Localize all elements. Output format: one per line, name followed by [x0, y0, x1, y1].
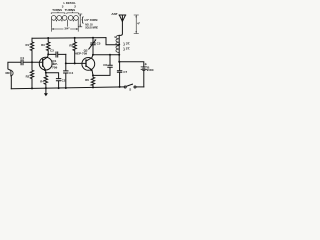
- resistor R2: [26, 74, 30, 78]
- bracket under left TURNS: [51, 12, 65, 14]
- node B+ / C7 top: [118, 61, 120, 63]
- 3T label: [123, 42, 130, 46]
- svg-text:TURNS: TURNS: [65, 8, 76, 12]
- resistor R1: [26, 43, 30, 47]
- capacitor C3: [50, 49, 54, 53]
- detail coil loop 5: [74, 16, 79, 21]
- L DETAIL title: [64, 1, 76, 5]
- detail coil loop 2: [57, 16, 62, 21]
- loop junction dots: [56, 20, 57, 21]
- switch S: [124, 86, 126, 88]
- svg-text:9VDC: 9VDC: [147, 68, 155, 72]
- svg-text:3T.: 3T.: [126, 42, 131, 46]
- Q1 label: [52, 59, 58, 69]
- variable capacitor C5: [97, 41, 101, 45]
- svg-text:2T.: 2T.: [126, 47, 131, 51]
- svg-text:C3: C3: [50, 49, 54, 53]
- brace for coil notes: [82, 15, 84, 24]
- svg-text:C1: C1: [20, 56, 24, 60]
- battery plus sign: [145, 63, 147, 65]
- svg-text:R4: R4: [40, 79, 44, 83]
- detail coil loop 1: [51, 16, 56, 21]
- emitter node Q2: [92, 74, 94, 76]
- svg-text:C2: C2: [62, 78, 66, 82]
- transistor Q1: [39, 57, 52, 70]
- antenna length dimension: [134, 15, 139, 34]
- emitter node Q1: [45, 72, 47, 74]
- Q2 label: [75, 49, 88, 56]
- note NO.18: [85, 22, 93, 26]
- svg-text:ANT: ANT: [111, 12, 117, 16]
- coil tap junction: [118, 44, 120, 46]
- coil L loops: [116, 35, 119, 52]
- rail step down to coil tap: [106, 38, 119, 45]
- svg-text:709: 709: [52, 65, 58, 69]
- svg-text:C7: C7: [123, 70, 127, 74]
- ground rail: [11, 87, 124, 89]
- wire mic bottom to ground rail: [10, 76, 12, 89]
- detail length dimension: [52, 27, 79, 32]
- resistor R3: [41, 43, 45, 47]
- form dimension bar: [78, 14, 82, 27]
- transistor Q2: [82, 58, 95, 71]
- capacitor C6: [103, 63, 107, 67]
- detail coil leads: [52, 19, 79, 26]
- wire emitter to C2: [46, 73, 59, 79]
- svg-text:C5: C5: [97, 41, 101, 45]
- svg-text:L: L: [115, 35, 117, 39]
- L label: [115, 35, 117, 39]
- top rail: [32, 37, 106, 40]
- 2 turns label: [65, 4, 77, 12]
- coil L axis: [118, 35, 120, 61]
- svg-text:3/4": 3/4": [64, 26, 70, 30]
- B+ wire to battery: [119, 62, 144, 67]
- resistor R4: [40, 79, 44, 83]
- svg-text:R3: R3: [41, 43, 45, 47]
- note 1/4in form: [84, 18, 98, 22]
- node collector Q1: [47, 53, 49, 55]
- detail coil loop 4: [68, 16, 73, 21]
- svg-text:MIC: MIC: [6, 71, 11, 75]
- node coil bottom on tank wire: [118, 54, 120, 56]
- svg-text:4": 4": [137, 22, 141, 26]
- svg-text:HEP-709: HEP-709: [75, 51, 88, 55]
- node C4 tap: [65, 62, 67, 64]
- antenna symbol: [119, 15, 126, 21]
- wire mic to C1: [8, 62, 21, 70]
- capacitor C1: [20, 56, 24, 60]
- svg-text:TURNS: TURNS: [52, 8, 62, 12]
- svg-text:C6: C6: [103, 63, 107, 67]
- ANT label: [111, 12, 117, 16]
- svg-text:SOLID WIRE: SOLID WIRE: [85, 25, 98, 29]
- wire C1 to Q1 base: [23, 61, 43, 63]
- svg-text:R1: R1: [26, 43, 30, 47]
- bracket under right TURNS: [67, 12, 78, 14]
- resistor R6: [85, 78, 89, 82]
- 2T label: [123, 47, 130, 51]
- svg-text:S: S: [129, 88, 131, 92]
- note SOLID WIRE: [85, 25, 98, 29]
- wire C3 down to base net: [66, 54, 86, 63]
- node R5 bottom: [74, 62, 76, 64]
- node base Q1: [31, 61, 33, 63]
- svg-text:C4: C4: [69, 71, 73, 75]
- MIC label: [6, 71, 11, 75]
- capacitor C2: [62, 78, 66, 82]
- battery B: [141, 67, 146, 71]
- detail coil loop 3: [62, 16, 67, 21]
- tank wire collector Q2: [93, 54, 119, 56]
- capacitor C7: [123, 70, 127, 74]
- svg-text:R6: R6: [85, 78, 89, 82]
- capacitor C4: [69, 71, 73, 75]
- antenna lead wire: [119, 21, 122, 35]
- 3 turns label: [52, 4, 64, 12]
- resistor R5: [69, 44, 73, 48]
- microphone: [10, 70, 12, 76]
- svg-text:R2: R2: [26, 74, 30, 78]
- ground symbol: [45, 87, 47, 89]
